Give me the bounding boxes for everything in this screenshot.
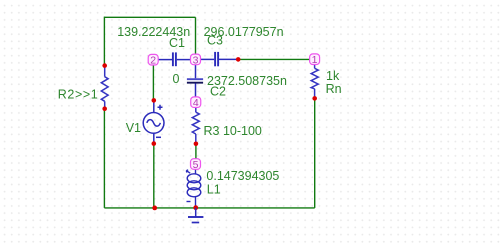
svg-text:5: 5 <box>193 159 199 171</box>
svg-text:V1: V1 <box>126 121 141 135</box>
svg-text:Rn: Rn <box>326 82 342 96</box>
wire node2 down to V1 <box>152 65 154 101</box>
resistor R2 <box>101 66 108 109</box>
svg-text:2: 2 <box>150 55 156 67</box>
svg-text:C3: C3 <box>207 34 223 48</box>
resistor R2 terminal dot top <box>102 63 107 68</box>
capacitor C3 <box>201 52 239 66</box>
svg-text:L1: L1 <box>207 182 221 196</box>
capacitor C2 <box>187 65 203 97</box>
wire V1 to bottom wire <box>153 144 155 208</box>
node 2 <box>148 54 158 66</box>
svg-text:1: 1 <box>312 54 318 66</box>
wire bottom horizontal <box>104 207 314 209</box>
svg-text:R3 10-100: R3 10-100 <box>204 124 262 138</box>
node 1 <box>310 54 320 66</box>
svg-text:4: 4 <box>193 97 199 109</box>
svg-text:0: 0 <box>173 72 180 86</box>
voltage source V1 terminal dot top <box>152 98 157 103</box>
wire Rn to bottom wire <box>314 98 316 207</box>
inductor L1 junction dot <box>193 205 198 210</box>
voltage source V1 <box>143 100 164 143</box>
voltage source V1 terminal dot bottom <box>152 141 157 146</box>
resistor R3 terminal dot <box>194 142 199 147</box>
svg-text:3: 3 <box>193 54 199 66</box>
svg-text:C1: C1 <box>169 36 185 50</box>
wire top horizontal <box>104 16 195 18</box>
capacitor C1 <box>158 52 190 66</box>
wire left vertical (top wire to R2) <box>103 17 105 66</box>
svg-text:0.147394305: 0.147394305 <box>206 169 279 183</box>
node 3 <box>191 54 201 66</box>
resistor Rn terminal dot <box>312 96 317 101</box>
wire C3 to node 1 <box>238 58 310 60</box>
svg-text:R2>>1: R2>>1 <box>58 88 99 102</box>
ground <box>188 208 203 223</box>
resistor Rn <box>311 65 318 99</box>
junction dot V1 branch at bottom wire <box>152 206 157 211</box>
wire left vertical (R2 to bottom wire) <box>103 109 105 208</box>
node 4 <box>191 97 201 109</box>
resistor R2 terminal dot bottom <box>102 106 107 111</box>
svg-text:C2: C2 <box>210 84 226 98</box>
inductor L1 <box>186 169 201 207</box>
capacitor C3 terminal junction dot <box>236 57 241 62</box>
wire node3 to top wire <box>195 17 197 54</box>
node 5 <box>191 159 201 171</box>
wire R3 to node5 <box>195 144 197 159</box>
resistor R3 <box>192 107 199 143</box>
